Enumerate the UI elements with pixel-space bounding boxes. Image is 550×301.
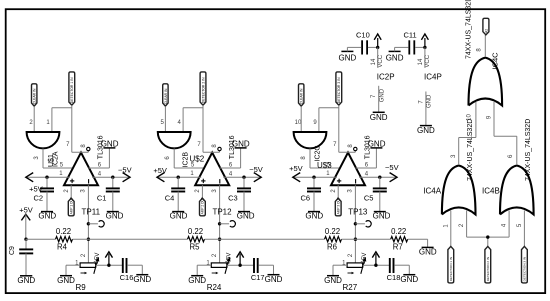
svg-text:4: 4 [229,171,233,177]
svg-text:C18: C18 [387,273,401,282]
wire R9 pin 3 to -5V and C16 [96,264,122,266]
svg-text:C2: C2 [34,193,44,202]
net tag AMP 2 OUT (comparator + input) [200,197,206,216]
wire R27 pin 1 to ground [333,265,347,276]
capacitor C1 (V- decoupling) [97,177,120,211]
ground symbol (ladder end) [419,247,437,256]
wire DETECTOR 2 IN down to comparator output pin 7 [202,105,204,152]
svg-text:AMP 2 OUT: AMP 2 OUT [201,197,205,214]
wire rail R4 to R5 [73,238,188,240]
net tag DETECTION 3 IN [522,246,528,283]
svg-text:1: 1 [46,120,50,126]
wire comparator pin 6 to ground [89,148,110,168]
svg-text:8: 8 [348,144,354,148]
svg-text:GND: GND [170,211,188,220]
wire C16 to ground [127,265,142,275]
power pin 14 VCC of IC2P [371,47,384,67]
svg-text:+5V: +5V [19,206,33,215]
net tag CLEAR IN (channel 2) [163,84,168,106]
svg-text:TP11: TP11 [82,208,101,217]
pin number 1 (V+) [190,171,194,177]
svg-text:8: 8 [301,156,307,160]
svg-text:2: 2 [459,223,465,227]
pin number 3 (IC4A output) [451,154,457,158]
wire comparator pin 6 to ground [356,148,377,168]
svg-text:14: 14 [371,58,377,65]
svg-text:1: 1 [326,171,330,177]
wire rail R5 to R6 [205,238,325,240]
comparator U$1 IC2A TL3016 (triangle) [64,153,98,186]
svg-text:2: 2 [29,120,33,126]
part value 74XX-US_74LS32D (IC4B) [525,119,532,181]
pin number 3 (gate output) [34,156,40,160]
capacitor C17 (threshold filter) [251,258,265,282]
svg-text:74XX-US_74LS32D: 74XX-US_74LS32D [467,119,474,181]
svg-text:GND: GND [133,275,151,284]
-5V supply arrow (vertical, trimmer supply) [95,252,112,265]
ground symbol (C5) [373,211,391,220]
pin number 8 [81,144,87,148]
wire comparator -input pin 3 down to threshold node [219,185,221,263]
comparator output pins 7 / 8 connector [339,151,356,153]
part value 74XX-US_74LS32D (IC4A) [467,119,474,181]
wire gate output pin 3 to comparator latch-enable pin 5 [43,149,73,169]
svg-text:IC4C: IC4C [491,52,500,70]
svg-text:GND: GND [419,248,437,257]
wire comparator pin 6 to ground [220,148,241,168]
wire comparator -input pin 3 down to threshold node [87,185,89,263]
svg-text:7: 7 [333,142,337,148]
pin number 7 (Q output) [333,142,337,148]
svg-text:TL3016: TL3016 [229,135,236,159]
svg-text:GND: GND [417,126,435,135]
wire net DETECTION 2 (IC4A.2 to IC4B.4) [467,237,510,246]
svg-text:1: 1 [443,224,449,228]
capacitor C2 (V+ decoupling) [34,177,54,211]
svg-text:3: 3 [34,156,40,160]
svg-text:R5: R5 [190,242,201,251]
svg-text:C3: C3 [228,193,238,202]
wire comparator -input pin 3 down to threshold node [354,185,356,263]
svg-text:4: 4 [365,171,369,177]
svg-text:3: 3 [212,189,218,193]
svg-text:IC2C: IC2C [315,146,322,162]
power pin 7 GND of IC4P [418,92,432,126]
svg-text:2: 2 [195,189,201,193]
pin number 8 (gate output) [301,156,307,160]
-5V supply arrow (vertical, trimmer supply) [226,252,243,265]
wire R7 to ground [408,239,428,247]
junction node (test point TP12 tap) [218,222,221,225]
AND gate (latch-enable logic, pins 5,4 -> 6) channel 2 [158,132,191,148]
svg-text:−5V: −5V [118,165,132,174]
svg-text:14: 14 [418,58,424,65]
resistor R6 0.22 [325,227,342,251]
pin number 6 (IC4B output) [508,154,514,158]
pin number 1 (gate input) [46,120,50,126]
wire C11 to VCC node [415,46,425,48]
+5V supply arrow (channel 3) [289,164,303,182]
svg-text:C16: C16 [120,273,134,282]
capacitor C10 (VCC bypass) [356,30,370,54]
svg-text:9: 9 [486,115,492,119]
part name IC2A / U$1 and value TL3016 [48,135,105,167]
pin number 7 (Q output) [197,142,201,148]
ground symbol (C3) [237,211,255,220]
IC power symbol name IC2P [377,72,395,81]
svg-text:GND: GND [237,211,255,220]
wire R24 pin 3 to -5V and C17 [227,264,253,266]
capacitor C16 (threshold filter) [120,258,134,282]
svg-text:DETECTION 2 IN: DETECTION 2 IN [486,257,490,281]
svg-text:A2: A2 [484,29,488,33]
svg-text:0.22: 0.22 [188,227,203,236]
test point TP11 [82,208,105,227]
capacitor C6 (V+ decoupling) [301,177,321,211]
wire CLEAR IN to gate input pin 10 [300,106,302,132]
ground symbol (R24 pin 1) [188,276,206,285]
-5V supply arrow (channel 2) [249,165,263,182]
svg-text:TL3016: TL3016 [98,135,105,159]
svg-text:3: 3 [451,154,457,158]
-5V supply arrow (channel 3) [385,163,399,182]
wire IC4A input pin 1 from DETECTION 1 tag [450,211,452,247]
wire comparator pin 4 to -5V rail [359,176,397,178]
net tag output (top right) [483,18,489,35]
svg-text:8: 8 [212,144,218,148]
svg-text:GND: GND [57,276,75,285]
capacitor C18 (threshold filter) [387,258,401,282]
svg-text:0.22: 0.22 [391,227,406,236]
wire comparator +input pin 2 to analog tag [70,185,72,198]
svg-text:C10: C10 [356,30,370,39]
svg-text:GND: GND [188,276,206,285]
power pin 14 VCC of IC4P [418,47,431,67]
pin number 10 (gate input) [295,120,302,126]
pin number 7 (Q output) [66,142,70,148]
junction node (VCC pin 14 of IC4P) [423,46,426,49]
pin number 4 (V-) [365,171,369,177]
junction node (-5V / cap tap) [107,264,110,267]
svg-text:GND: GND [370,113,388,122]
svg-text:0.22: 0.22 [56,227,71,236]
svg-text:0.22: 0.22 [325,227,340,236]
pin number 2 (+IN) [331,189,337,193]
svg-text:VCC: VCC [425,54,431,67]
svg-text:+5V: +5V [289,164,303,173]
svg-text:4: 4 [178,120,182,126]
wire R24 pin 1 to ground [197,265,211,276]
svg-text:2: 2 [348,253,354,257]
svg-text:DETECTOR 3 IN: DETECTOR 3 IN [337,77,341,103]
svg-text:GND: GND [106,211,124,220]
svg-text:CLEAR IN: CLEAR IN [300,88,304,104]
svg-text:−5V: −5V [249,165,263,174]
ground symbol (C10) [339,47,362,62]
svg-text:6: 6 [165,156,171,160]
svg-text:CLEAR IN: CLEAR IN [33,88,37,104]
ground symbol (C16) [133,275,151,284]
svg-text:TP13: TP13 [348,208,368,217]
svg-text:4: 4 [502,223,508,227]
net tag CLEAR IN (channel 3) [299,84,304,106]
svg-text:74XX-US_74LS32D: 74XX-US_74LS32D [466,0,473,59]
OR gate IC4B 74LS32 (pins 4,5 -> 6) [482,166,534,215]
wire IC4C output pin 8 to output tag [484,35,486,57]
svg-text:1: 1 [190,171,194,177]
+5V supply arrow (channel 2) [153,166,167,182]
pin 8 (Q-bar output, unconnected) open circle [354,147,357,150]
svg-text:IC2P: IC2P [377,72,395,81]
svg-text:−5V: −5V [362,253,368,264]
wire gate output pin 6 to comparator latch-enable pin 5 [174,149,204,169]
svg-text:DETECTION 3 IN: DETECTION 3 IN [523,257,527,281]
ground symbol (C2) [38,211,56,220]
wire IC4B input pin 5 from DETECTION 3 tag [523,211,525,247]
pin number 8 [348,144,354,148]
pin number 2 (IC4A input) [459,223,465,227]
junction node (threshold rail) [87,238,90,241]
pin number 6 [229,163,233,169]
svg-text:R27: R27 [343,283,358,292]
svg-text:IC4B: IC4B [482,186,500,195]
svg-text:C17: C17 [251,273,265,282]
net tag AMP 3 OUT (comparator + input) [335,197,341,216]
capacitor C9 (supply filter) [9,239,33,276]
wire R27 pin 3 to -5V and C18 [363,264,389,266]
wire comparator +input pin 2 to analog tag [337,185,339,198]
pin number 4 (IC4B input) [502,223,508,227]
net tag CLEAR IN (channel 1) [32,84,37,106]
pin number 1 (V+) [59,171,63,177]
pin number 9 (IC4C input) [486,115,492,119]
net tag DETECTOR 1 IN (channel 1) [69,72,75,105]
wire CLEAR IN to gate input pin 2 [33,106,35,132]
junction node (+5V / C9) [24,238,27,241]
svg-text:10: 10 [295,120,302,126]
capacitor C3 (V- decoupling) [228,177,251,211]
junction node (-5V / cap tap) [238,264,241,267]
svg-text:4: 4 [98,171,102,177]
wire +5V rail to comparator pin 1 [293,176,337,178]
test point TP12 [212,208,235,227]
wire rail R6 to R7 [342,238,391,240]
junction node (C3 tap on -5V rail) [242,176,245,179]
pin number 2 (+IN) [195,189,201,193]
ground symbol (C9) [17,276,35,285]
trimmer potentiometer R27 (threshold adjust) [343,257,367,292]
wire branch to gate input pin 9 [319,108,339,132]
svg-text:3: 3 [348,189,354,193]
ground symbol (R9 pin 1) [57,276,75,285]
ground symbol (C11) [386,47,409,62]
wire threshold rail segment (+5V to R4) [26,238,56,240]
junction node (threshold rail) [218,238,221,241]
svg-text:9: 9 [313,120,317,126]
svg-text:C11: C11 [403,30,416,39]
pin number 8 [212,144,218,148]
svg-text:GND: GND [17,276,35,285]
svg-text:TP12: TP12 [212,208,232,217]
svg-text:7: 7 [418,100,424,104]
svg-text:AMP 1 OUT: AMP 1 OUT [70,197,74,214]
svg-text:C1: C1 [97,193,107,202]
svg-text:−5V: −5V [95,253,101,264]
svg-text:DETECTION 1 IN: DETECTION 1 IN [449,257,453,281]
resistor R4 0.22 [56,227,73,251]
ground symbol (C17) [265,275,283,284]
svg-text:AMP 3 OUT: AMP 3 OUT [337,197,341,214]
svg-text:R6: R6 [327,242,337,251]
comparator output pins 7 / 8 connector [203,151,220,153]
svg-text:GND: GND [373,211,391,220]
junction node (DETECTION 2 net) [486,235,489,238]
wire DETECTOR 1 IN down to comparator output pin 7 [71,105,73,152]
pin number 1 (V+) [326,171,330,177]
junction node (threshold rail) [354,238,357,241]
ground symbol (C18) [400,275,418,284]
wire branch to gate input pin 1 [52,108,72,132]
svg-text:IC4P: IC4P [424,72,442,81]
pin numbers 1,2,3 of R27 [342,253,367,266]
svg-text:7: 7 [66,142,70,148]
wire comparator pin 4 to -5V rail [92,176,130,178]
trimmer potentiometer R24 (threshold adjust) [207,257,231,292]
svg-text:GND: GND [305,211,323,220]
capacitor C11 (VCC bypass) [403,30,416,54]
pin number 4 (gate input) [178,120,182,126]
trimmer potentiometer R9 (threshold adjust) [76,257,100,292]
junction node (-5V / cap tap) [374,264,377,267]
pin number 8 (IC4C output) [477,48,483,52]
pin number 6 (gate output) [165,156,171,160]
svg-text:C4: C4 [165,193,175,202]
svg-text:R24: R24 [207,283,222,292]
svg-text:2: 2 [64,189,70,193]
pin number 5 (IC4B input) [517,223,523,227]
pin number 4 (V-) [98,171,102,177]
svg-text:3: 3 [81,189,87,193]
comparator U$3 IC2C TL3016 (triangle) [331,153,365,186]
svg-text:U$3: U$3 [317,161,332,170]
svg-text:IC4A: IC4A [423,186,441,195]
pin number 2 (+IN) [64,189,70,193]
svg-text:GND: GND [386,53,404,62]
power pin 7 GND of IC2P [371,86,385,113]
svg-text:10: 10 [466,114,472,121]
svg-text:2: 2 [212,253,218,257]
net tag DETECTION 2 IN [485,246,491,283]
svg-text:GND: GND [324,276,342,285]
comparator U$2 IC2B TL3016 (triangle) [195,153,229,186]
svg-text:−5V: −5V [226,253,232,264]
svg-text:CLEAR IN: CLEAR IN [164,88,168,104]
ground symbol (comparator pin 6) channel 2 [232,140,250,149]
wire +5V rail to comparator pin 1 [26,176,70,178]
wire CLEAR IN to gate input pin 5 [164,106,166,132]
wire R9 pin 1 to ground [66,265,80,276]
OR gate IC4A 74LS32 (pins 1,2 -> 3) [423,166,475,215]
ground symbol (R27 pin 1) [324,276,342,285]
junction node (C5 tap on -5V rail) [378,176,381,179]
IC power symbol name IC4P [424,72,442,81]
AND gate (latch-enable logic, pins 2,1 -> 3) channel 1 [27,132,60,148]
junction node (C6 tap on +5V rail) [312,176,315,179]
pin number 10 (IC4C input) [466,114,472,121]
-5V supply arrow (channel 1) [118,165,132,182]
svg-text:2: 2 [81,253,87,257]
pin number 4 (V-) [229,171,233,177]
+5V supply arrow (channel 1) [26,173,43,194]
net tag DETECTOR 2 IN (channel 2) [200,72,206,105]
VCC supply arrow (IC2P) [374,34,381,47]
ground symbol (comparator pin 6) channel 1 [101,140,119,149]
svg-text:R7: R7 [393,242,403,251]
AND gate (latch-enable logic, pins 10,9 -> 8) channel 3 [294,132,327,148]
wire branch to gate input pin 4 [183,108,203,132]
svg-text:−5V: −5V [385,163,399,172]
svg-text:DETECTOR 2 IN: DETECTOR 2 IN [201,77,205,103]
pin numbers 1,2,3 of R9 [75,253,100,266]
svg-text:GND: GND [427,94,433,108]
svg-text:TL3016: TL3016 [365,135,372,159]
pin number 5 (comparator latch enable) [191,163,195,169]
-5V supply arrow (vertical, trimmer supply) [362,252,379,265]
svg-text:2: 2 [331,189,337,193]
net tag DETECTOR 3 IN (channel 3) [336,72,342,105]
net tag AMP 1 OUT (comparator + input) [68,197,74,216]
svg-text:74XX-US_74LS32D: 74XX-US_74LS32D [525,119,532,181]
VCC supply arrow (IC4P) [421,34,428,47]
pin number 2 (gate input) [29,120,33,126]
svg-text:GND: GND [38,211,56,220]
svg-text:C5: C5 [364,193,374,202]
wire IC4B output pin 6 to IC4C input pin 9 [494,102,517,165]
junction node (C1 tap on -5V rail) [111,176,114,179]
+5V supply symbol (threshold ladder, top left) [19,206,33,240]
wire gate output pin 8 to comparator latch-enable pin 5 [310,149,340,169]
net tag DETECTION 1 IN [448,246,454,283]
svg-text:U$2: U$2 [190,154,205,163]
svg-text:5: 5 [161,120,165,126]
pin number 6 [98,163,102,169]
junction node (test point TP13 tap) [354,222,357,225]
pin number 5 (gate input) [161,120,165,126]
comparator output pins 7 / 8 connector [72,151,89,153]
pin 8 (Q-bar output, unconnected) open circle [218,147,221,150]
wire comparator pin 4 to -5V rail [223,176,261,178]
resistor R5 0.22 [188,227,205,251]
svg-text:DETECTOR 1 IN: DETECTOR 1 IN [70,77,74,103]
svg-text:C6: C6 [301,193,311,202]
ground symbol (pin 7 of IC2P) [370,112,388,122]
pin number 3 (-IN) [212,189,218,193]
svg-text:+5V: +5V [153,166,167,175]
test point TP13 [348,208,371,227]
part name IC2B / U$2 and value TL3016 [183,135,236,167]
pin number 5 (comparator latch enable) [60,163,64,169]
svg-text:R9: R9 [76,283,87,292]
svg-text:7: 7 [371,94,377,98]
svg-text:R4: R4 [57,242,68,251]
junction node (C2 tap on +5V rail) [45,176,48,179]
svg-text:8: 8 [477,48,483,52]
junction node (test point TP11 tap) [87,222,90,225]
wire DETECTOR 3 IN down to comparator output pin 7 [338,105,340,152]
svg-text:GND: GND [339,53,357,62]
pin number 6 [365,163,369,169]
wire C18 to ground [394,265,409,275]
